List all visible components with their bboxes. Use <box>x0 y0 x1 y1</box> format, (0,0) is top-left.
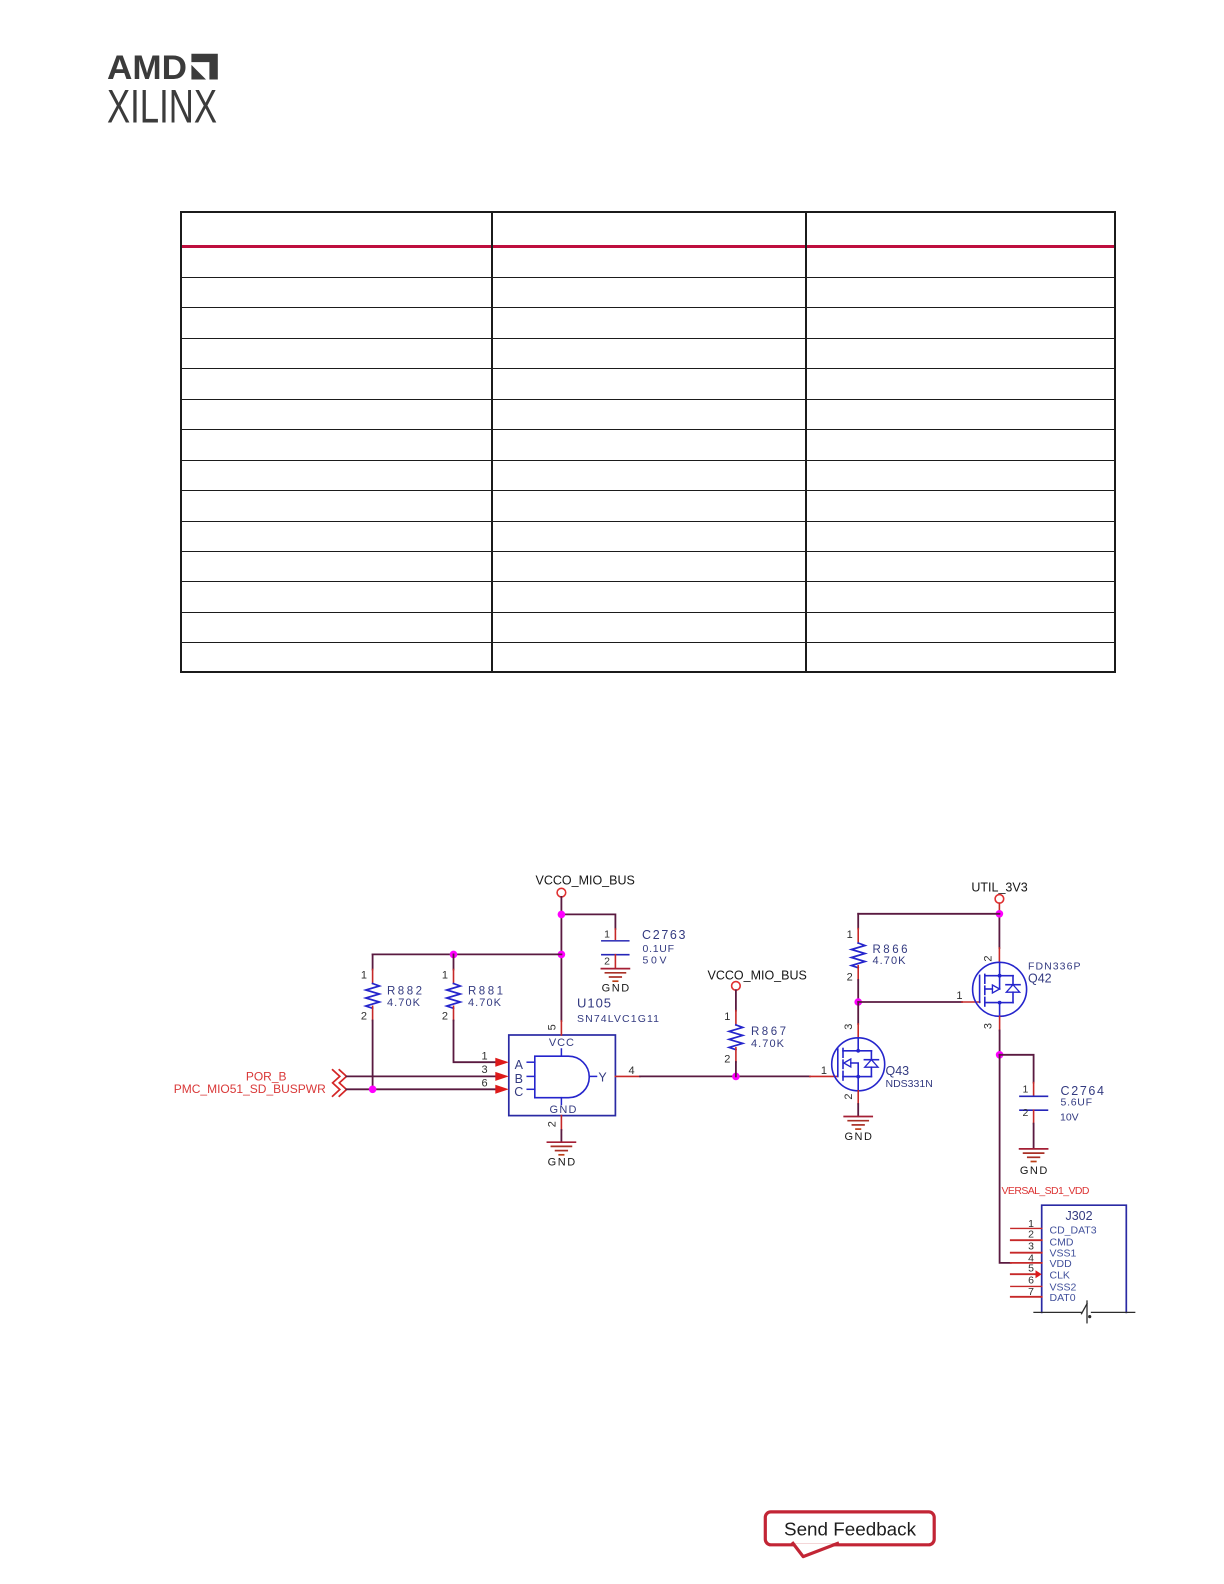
svg-text:3: 3 <box>843 1024 855 1030</box>
J302 pin 4 VDD <box>1011 1252 1072 1270</box>
AMD XILINX logo <box>0 0 260 140</box>
svg-text:R881: R881 <box>468 985 503 997</box>
Q42 drain wire down <box>999 1016 1001 1030</box>
svg-text:5.6UF: 5.6UF <box>1061 1097 1093 1109</box>
pin 1 arrow input A <box>495 1058 509 1067</box>
wire to C2764 <box>1000 1055 1034 1083</box>
svg-text:7: 7 <box>1028 1286 1034 1298</box>
svg-text:1: 1 <box>442 970 448 982</box>
svg-text:R882: R882 <box>387 985 422 997</box>
svg-text:CLK: CLK <box>1050 1270 1070 1282</box>
svg-text:2: 2 <box>442 1011 448 1023</box>
power symbol UTIL_3V3 (net label) <box>971 880 1027 903</box>
svg-text:1: 1 <box>361 970 367 982</box>
J302 pin 1 CD_DAT3 <box>1011 1218 1097 1237</box>
svg-text:SN74LVC1G11: SN74LVC1G11 <box>577 1013 659 1025</box>
svg-text:4.70K: 4.70K <box>873 955 907 967</box>
svg-text:GND: GND <box>550 1104 577 1116</box>
svg-text:4.70K: 4.70K <box>468 997 502 1009</box>
svg-text:10V: 10V <box>1060 1112 1079 1124</box>
capacitor C2764 <box>1020 1083 1104 1149</box>
ground GND below C2764 <box>1020 1149 1048 1177</box>
empty data table <box>180 211 1116 673</box>
resistor R867 <box>724 990 786 1076</box>
svg-text:1: 1 <box>847 929 853 941</box>
svg-text:2: 2 <box>724 1053 730 1065</box>
wire VCCO_MIO_BUS vertical <box>560 897 562 1021</box>
pin 2 GND <box>560 1116 562 1130</box>
junction UTIL_3V3 <box>996 910 1004 918</box>
svg-text:VERSAL_SD1_VDD: VERSAL_SD1_VDD <box>1002 1185 1090 1197</box>
off-page connector chevrons <box>333 1070 347 1096</box>
svg-text:NDS331N: NDS331N <box>886 1078 933 1090</box>
svg-text:GND: GND <box>1020 1165 1048 1177</box>
wire R866 top <box>858 913 999 915</box>
op-amp U105 (AND gate SN74LVC1G11) <box>509 1035 616 1116</box>
J302 pin 6 VSS2 <box>1011 1274 1077 1293</box>
ground GND below U105 <box>547 1142 575 1168</box>
svg-text:VCCO_MIO_BUS: VCCO_MIO_BUS <box>536 874 635 888</box>
continuation break below J302 <box>1034 1301 1135 1323</box>
junction R882 / C input <box>369 1086 377 1094</box>
capacitor C2763 <box>602 928 686 968</box>
svg-text:2: 2 <box>361 1011 367 1023</box>
svg-text:1: 1 <box>821 1065 827 1077</box>
svg-text:1: 1 <box>481 1051 487 1063</box>
transistor Q43 <box>832 1038 885 1091</box>
svg-text:B: B <box>515 1072 523 1086</box>
svg-text:VDD: VDD <box>1050 1258 1073 1270</box>
svg-text:6: 6 <box>1028 1274 1034 1286</box>
pin 5 VCC <box>560 1021 562 1035</box>
wire to C2763 <box>561 914 615 929</box>
svg-text:Y: Y <box>598 1071 607 1085</box>
ground GND below Q43 <box>844 1117 872 1144</box>
junction <box>558 951 566 959</box>
svg-text:U105: U105 <box>577 996 611 1011</box>
resistor R881 <box>442 954 503 1022</box>
pin 4 output Y wire <box>615 1075 640 1077</box>
junction <box>558 911 566 919</box>
wire input C <box>347 1088 496 1090</box>
svg-text:2: 2 <box>604 956 610 968</box>
ground GND below C2763 <box>601 969 629 995</box>
svg-text:2: 2 <box>547 1121 559 1127</box>
junction R867 bottom <box>732 1073 740 1081</box>
svg-text:VCCO_MIO_BUS: VCCO_MIO_BUS <box>708 968 807 982</box>
svg-text:4.70K: 4.70K <box>387 997 421 1009</box>
svg-text:Q42: Q42 <box>1028 971 1052 985</box>
svg-text:4: 4 <box>628 1065 634 1077</box>
wire junction down to Q43 <box>857 1002 859 1024</box>
transistor Q42 <box>973 962 1027 1016</box>
svg-text:UTIL_3V3: UTIL_3V3 <box>971 880 1027 894</box>
svg-text:PMC_MIO51_SD_BUSPWR: PMC_MIO51_SD_BUSPWR <box>174 1082 326 1096</box>
wire UTIL_3V3 down to Q42 <box>998 903 1000 914</box>
svg-text:2: 2 <box>843 1094 855 1100</box>
svg-text:A: A <box>515 1058 524 1072</box>
svg-text:3: 3 <box>983 1023 995 1029</box>
svg-text:3: 3 <box>1028 1241 1034 1253</box>
wire VERSAL_SD1_VDD down to J302 <box>1000 1055 1011 1263</box>
pin 3 arrow input B <box>495 1072 509 1081</box>
J302 pin 7 DAT0 <box>1011 1286 1076 1304</box>
J302 pin 3 VSS1 <box>1011 1241 1077 1260</box>
svg-text:2: 2 <box>1028 1228 1034 1240</box>
svg-text:3: 3 <box>481 1064 487 1076</box>
pin 6 arrow input C <box>495 1085 509 1094</box>
J302 pin 5 CLK <box>1011 1263 1070 1282</box>
wire R881 to input A <box>454 1021 496 1063</box>
svg-text:4.70K: 4.70K <box>751 1038 785 1050</box>
svg-text:2: 2 <box>1022 1107 1028 1119</box>
svg-text:1: 1 <box>956 990 962 1002</box>
junction R881 top <box>450 951 458 959</box>
svg-text:GND: GND <box>602 983 630 995</box>
svg-text:DAT0: DAT0 <box>1050 1292 1076 1304</box>
wire Y to Q43 gate <box>640 1075 810 1077</box>
svg-text:R867: R867 <box>751 1026 786 1038</box>
wire junction to Q42 gate <box>858 1001 962 1003</box>
Q43 source wire to GND <box>857 1091 859 1104</box>
svg-text:VCC: VCC <box>549 1037 574 1049</box>
svg-text:GND: GND <box>844 1131 872 1143</box>
svg-text:J302: J302 <box>1065 1209 1092 1223</box>
svg-text:2: 2 <box>983 955 995 961</box>
wire input B <box>347 1075 496 1077</box>
resistor R866 <box>847 914 908 1002</box>
wire horizontal to R882/R881 <box>373 953 562 955</box>
svg-text:2: 2 <box>847 971 853 983</box>
Send Feedback button <box>765 1512 934 1557</box>
power symbol VCCO_MIO_BUS (net label) <box>536 874 635 897</box>
svg-text:5: 5 <box>1028 1263 1034 1275</box>
svg-text:C: C <box>514 1085 523 1099</box>
svg-text:5: 5 <box>547 1024 559 1030</box>
power symbol VCCO_MIO_BUS 2 (net label) <box>708 968 807 990</box>
svg-text:6: 6 <box>481 1077 487 1089</box>
svg-text:50V: 50V <box>643 955 667 967</box>
svg-text:Q43: Q43 <box>886 1064 910 1078</box>
junction Q42 drain / C2764 <box>996 1051 1004 1059</box>
svg-text:GND: GND <box>548 1157 576 1169</box>
svg-text:C2763: C2763 <box>642 928 686 942</box>
svg-text:CD_DAT3: CD_DAT3 <box>1050 1225 1097 1237</box>
junction R866 / Q43 drain / Q42 gate <box>854 998 862 1006</box>
svg-text:Send Feedback: Send Feedback <box>784 1519 917 1539</box>
connector J302 <box>1042 1205 1127 1312</box>
svg-text:0.1UF: 0.1UF <box>643 943 675 955</box>
svg-text:1: 1 <box>1022 1083 1028 1095</box>
svg-text:1: 1 <box>604 928 610 940</box>
svg-text:1: 1 <box>724 1011 730 1023</box>
J302 pin 2 CMD <box>1011 1228 1074 1248</box>
resistor R882 <box>361 954 422 1089</box>
svg-text:CMD: CMD <box>1050 1236 1074 1248</box>
